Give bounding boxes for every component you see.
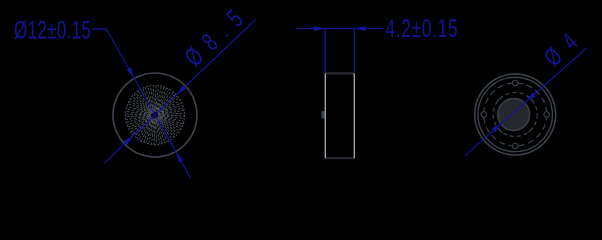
svg-text:4.2±0.15: 4.2±0.15 (386, 15, 458, 43)
svg-text:Ø12±0.15: Ø12±0.15 (14, 16, 91, 44)
